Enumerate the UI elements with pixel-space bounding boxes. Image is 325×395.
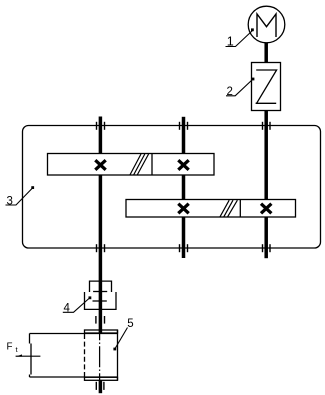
svg-text:4: 4: [64, 303, 71, 315]
svg-text:5: 5: [127, 318, 133, 330]
svg-text:2: 2: [227, 86, 233, 98]
svg-text:F: F: [7, 342, 13, 353]
svg-text:3: 3: [7, 195, 13, 207]
svg-text:1: 1: [227, 35, 234, 49]
